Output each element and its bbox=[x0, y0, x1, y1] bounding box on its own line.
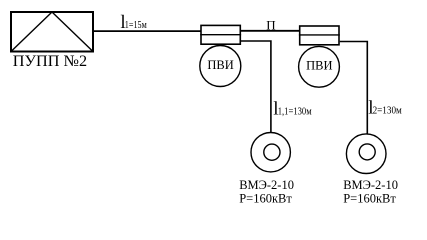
svg-text:ВМЭ-2-10: ВМЭ-2-10 bbox=[343, 178, 398, 192]
starter PVI 2 circle bbox=[299, 46, 340, 87]
wire box1 to box2 bbox=[241, 30, 300, 32]
wire main feed from PUPP to box1 bbox=[94, 30, 201, 32]
transformer substation PUPP box bbox=[11, 12, 93, 52]
starter PVI 1 circle bbox=[200, 46, 241, 87]
breaker box 2 bbox=[299, 26, 340, 45]
breaker box 1 bbox=[200, 25, 241, 44]
svg-text:ПУПП №2: ПУПП №2 bbox=[13, 53, 87, 70]
svg-text:ПВИ: ПВИ bbox=[306, 58, 332, 72]
svg-text:Р=160кВт: Р=160кВт bbox=[239, 192, 292, 206]
motor M1 bbox=[251, 133, 290, 172]
svg-text:ПВИ: ПВИ bbox=[207, 58, 233, 72]
svg-text:П: П bbox=[266, 18, 275, 33]
svg-text:Р=160кВт: Р=160кВт bbox=[343, 192, 396, 206]
motor M2 bbox=[346, 134, 386, 174]
svg-text:ВМЭ-2-10: ВМЭ-2-10 bbox=[239, 178, 294, 192]
svg-text:l1=15м: l1=15м bbox=[120, 12, 146, 33]
svg-text:l1,1=130м: l1,1=130м bbox=[273, 99, 311, 120]
wire branch 1 to motor M1 bbox=[241, 41, 271, 133]
wire branch 2 to motor M2 bbox=[340, 42, 368, 135]
svg-text:l2=130м: l2=130м bbox=[368, 98, 402, 119]
